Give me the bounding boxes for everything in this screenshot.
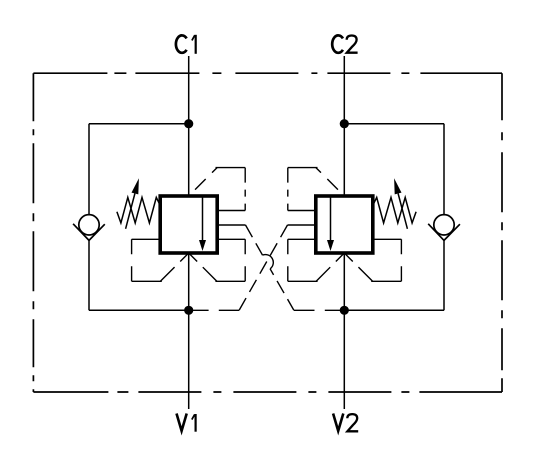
check valve CV2 (ball and seat) xyxy=(428,215,460,241)
wire left check-valve riser lower xyxy=(88,240,90,310)
flow arrow inside left valve xyxy=(199,197,206,251)
junction dot V1 xyxy=(184,306,193,315)
junction dot C2 xyxy=(340,119,349,128)
wire top-right branch to check valve CV2 xyxy=(344,123,444,125)
cross pilot line from left valve to V2 (dashed diagonal A) xyxy=(217,225,341,310)
wire bottom-left branch from check valve CV1 xyxy=(89,309,189,311)
pilot line loop lower-right of right valve xyxy=(344,239,401,281)
cross pilot line from right valve to V1 (dashed diagonal B) xyxy=(193,225,316,310)
wire C2 vertical line xyxy=(343,56,345,196)
wire C1 vertical line xyxy=(188,56,190,196)
enclosure boundary (valve block, dash-dot) xyxy=(33,73,502,392)
pilot line loop lower-right of left valve xyxy=(189,239,246,281)
pilot crossing jump arc xyxy=(263,255,274,269)
pilot line loop upper-left of right valve xyxy=(288,168,345,211)
wire left check-valve riser upper xyxy=(88,124,90,215)
wire bottom-right branch from check valve CV2 xyxy=(344,309,444,311)
spring right valve xyxy=(373,197,417,223)
counterbalance valve element body left (square) xyxy=(160,196,217,253)
port label V1 xyxy=(177,414,196,432)
wire left valve outlet to V1 junction xyxy=(188,253,190,310)
port label C1 xyxy=(176,35,196,54)
wire right valve outlet to V2 junction xyxy=(343,253,345,310)
check valve CV1 (ball and seat) xyxy=(73,215,105,241)
pilot line loop lower-left of right valve xyxy=(288,239,345,281)
wire V1 vertical line xyxy=(188,310,190,409)
counterbalance valve element body right (square) xyxy=(316,196,373,253)
spring left valve xyxy=(117,197,160,223)
adjustment arrow left spring xyxy=(126,178,139,229)
flow arrow inside right valve xyxy=(327,197,334,251)
wire V2 vertical line xyxy=(343,310,345,409)
port label V2 xyxy=(333,414,358,432)
wire right check-valve riser upper xyxy=(443,124,445,215)
junction dot C1 xyxy=(184,119,193,128)
wire right check-valve riser lower xyxy=(443,240,445,310)
wire top-left branch to check valve CV1 xyxy=(89,123,189,125)
pilot line loop upper-right of left valve xyxy=(189,168,246,211)
junction dot V2 xyxy=(340,306,349,315)
port label C2 xyxy=(332,35,357,52)
pilot line loop lower-left of left valve xyxy=(132,239,189,281)
adjustment arrow right spring xyxy=(394,178,407,229)
